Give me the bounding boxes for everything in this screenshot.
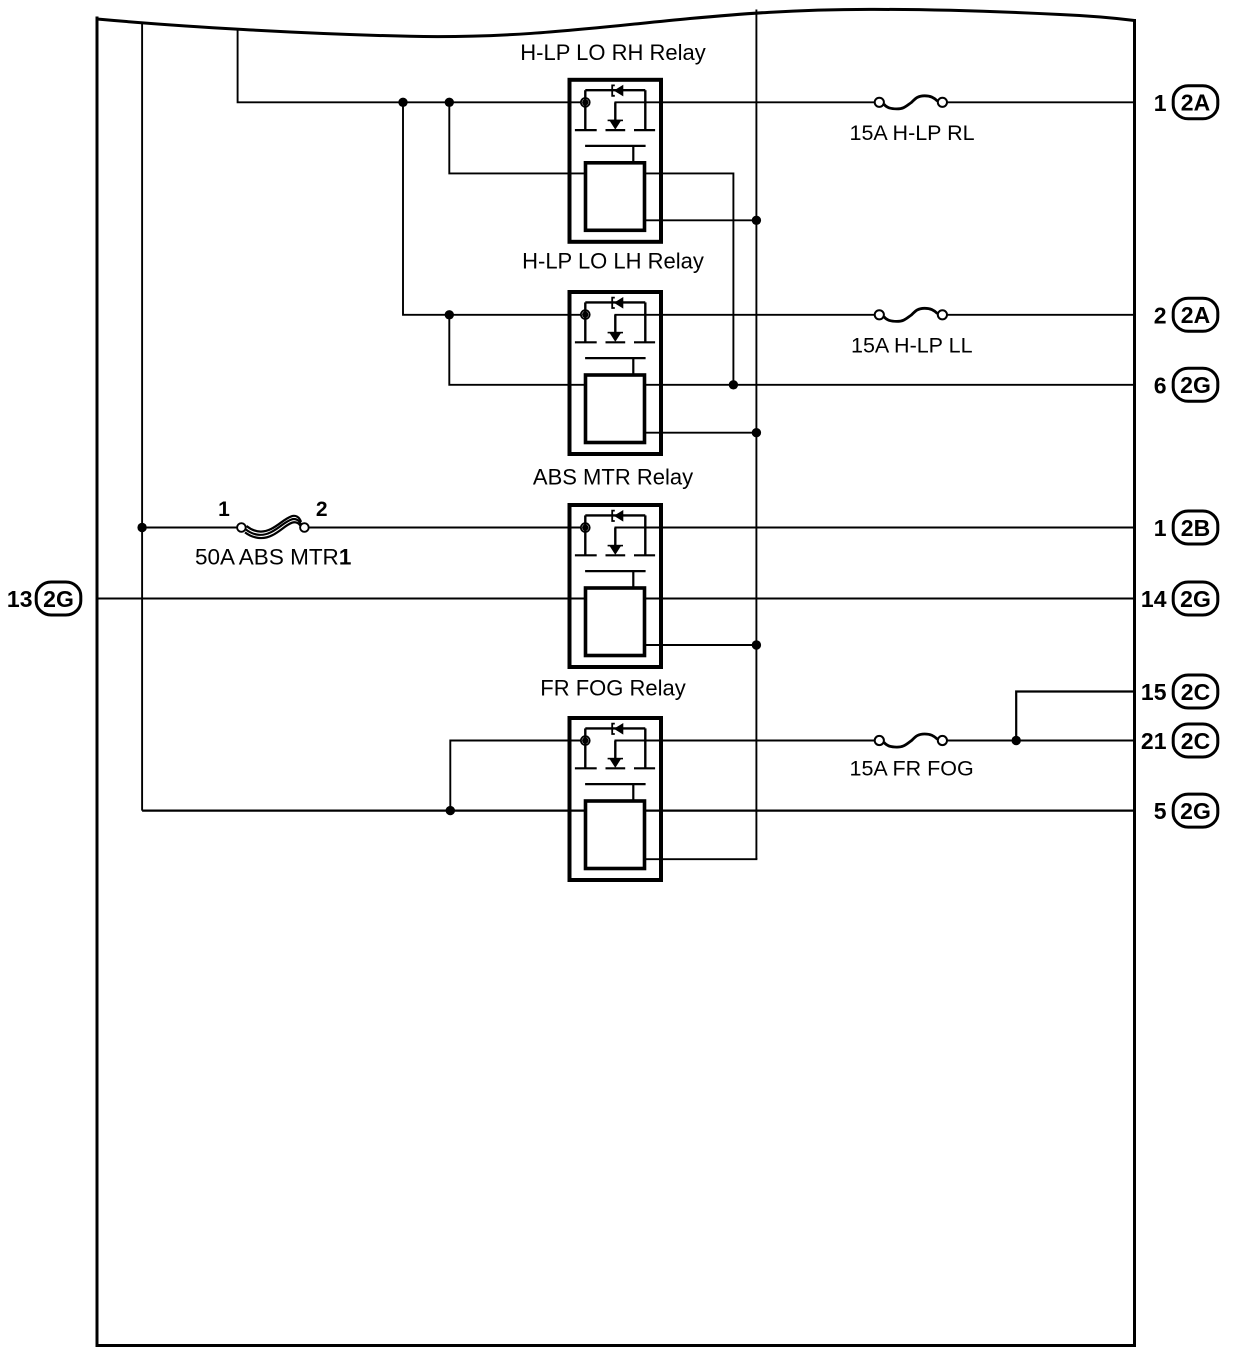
diode D-H-LP LO RH anode triangle [615,86,623,96]
node down-link joins 6-2G wire [729,380,738,389]
wire relay3 coil to connector 14-2G [645,598,1135,600]
svg-text:21: 21 [1141,728,1167,754]
diode D-H-LP LO LH cathode bar [612,298,615,308]
relay H-LP LO LH coil box [586,375,645,443]
relay H-LP LO LH gate arrow [608,332,623,334]
svg-text:H-LP LO RH Relay: H-LP LO RH Relay [520,40,705,65]
relay H-LP LO RH gate lead [614,102,616,120]
wire relay4 output to fuse FR FOG [615,740,875,742]
wire relay1 coil ground to rail [645,219,757,221]
svg-text:1: 1 [218,498,230,521]
wire fuse H-LP RL to connector 1-2A [947,101,1134,103]
harness frame bottom border [96,1344,1137,1347]
svg-text:15A H-LP LL: 15A H-LP LL [851,334,973,358]
relay FR FOG gate lead [614,741,616,759]
wire relay3 coil ground to rail [645,644,757,646]
wire relay4 coil ground corner to rail [645,858,757,859]
wire fuse FR FOG to connector 21-2C [947,740,1134,742]
svg-text:2A: 2A [1181,302,1210,328]
relay ABS MTR coil drive right leg [644,515,646,555]
harness frame wavy top edge [97,9,1135,36]
fuse 15A H-LP RL [884,96,938,109]
wire relay2 coil supply / 6-2G branch [449,315,585,385]
relay H-LP LO LH outer case [570,292,662,454]
svg-text:2G: 2G [43,586,74,612]
node junction feed/relay1 [398,98,407,107]
wire fuse H-LP LL to connector 2-2A [947,314,1134,316]
svg-text:13: 13 [7,586,33,612]
node junction relay2 coil feed [445,310,454,319]
diode D-ABS MTR cathode bar [612,511,615,521]
relay H-LP LO LH [570,292,662,454]
relay H-LP LO RH input pin node [581,98,590,107]
svg-text:2B: 2B [1181,515,1210,541]
relay H-LP LO RH coil box [586,163,645,231]
svg-text:5: 5 [1154,798,1167,824]
wire bus to fusible link 50A [142,527,237,529]
relay H-LP LO RH gate arrow [608,119,623,121]
svg-text:15A FR FOG: 15A FR FOG [850,757,974,781]
svg-text:2A: 2A [1181,90,1210,116]
relay H-LP LO LH input pin node [581,310,590,319]
svg-text:2C: 2C [1181,679,1210,705]
node relay4 input tap [446,806,455,815]
svg-text:2C: 2C [1181,728,1210,754]
relay H-LP LO RH armature line [585,145,646,147]
relay ABS MTR coil drive left leg [584,515,586,555]
harness frame left border [96,17,99,1346]
relay ABS MTR armature line [585,570,646,572]
relay ABS MTR input pin node [581,523,590,532]
svg-text:2G: 2G [1180,798,1211,824]
relay H-LP LO RH coil drive left leg [584,90,586,130]
diode D-ABS MTR anode triangle [615,511,623,521]
fuse 15A FR FOG [884,734,938,747]
wire bus corner into 5-2G line [142,809,585,811]
node bus to ABS MTR1 link [137,523,146,532]
relay ABS MTR contact bars [575,554,655,556]
relay H-LP LO LH coil drive top line [585,301,645,303]
wire relay3 output to connector 1-2B [615,527,1135,529]
relay H-LP LO RH coil drive top line [585,89,645,91]
relay FR FOG coil box [586,801,645,869]
svg-text:50A ABS MTR1: 50A ABS MTR1 [195,544,351,569]
svg-text:2G: 2G [1180,586,1211,612]
svg-text:H-LP LO LH Relay: H-LP LO LH Relay [522,249,704,274]
power feed vertical bus (left inner) [141,23,143,811]
svg-text:1: 1 [1154,90,1167,116]
svg-text:2G: 2G [1180,372,1211,398]
wire fusible link to relay3 input [309,527,582,529]
svg-text:ABS MTR Relay: ABS MTR Relay [533,464,693,489]
relay ABS MTR coil box [586,588,645,656]
diode D-H-LP LO RH cathode bar [612,85,615,95]
wire relay1 output to fuse H-LP RL [615,101,875,103]
wire relay2 coil out to connector 6-2G [645,384,1135,386]
svg-text:15A H-LP RL: 15A H-LP RL [850,121,975,145]
wire 13-2G through relay3 coil [97,598,586,600]
relay H-LP LO LH gate lead [614,315,616,333]
relay FR FOG coil drive top line [585,727,645,729]
wire relay4 coil to connector 5-2G [645,809,1135,811]
battery feed drop to H-LP relays [238,30,582,102]
svg-text:14: 14 [1141,586,1167,612]
relay H-LP LO LH armature link [632,358,634,375]
relay FR FOG [570,718,662,880]
fusible link 50A ABS MTR1 [237,516,309,538]
relay H-LP LO LH armature line [585,357,646,359]
wire relay1 coil out to down-link [645,173,734,384]
relay FR FOG input pin node [581,736,590,745]
relay FR FOG gate arrow [608,758,623,760]
node junction relay1 coil feed [445,98,454,107]
node relay1 ground on rail [752,216,761,225]
svg-text:15: 15 [1141,679,1167,705]
node relay2 ground on rail [752,428,761,437]
relay ABS MTR coil drive top line [585,514,645,516]
wire branch to connector 15-2C [1016,692,1134,741]
relay H-LP LO RH armature link [632,146,634,163]
relay H-LP LO LH coil drive right leg [644,302,646,342]
relay FR FOG armature link [632,784,634,801]
harness frame right border [1133,19,1136,1346]
svg-text:1: 1 [1154,515,1167,541]
relay H-LP LO RH [570,80,662,242]
fuse 15A H-LP LL [884,308,938,321]
wire relay2 output to fuse H-LP LL [615,314,875,316]
relay FR FOG contact bars [575,767,655,769]
relay ABS MTR armature link [632,571,634,588]
relay ABS MTR outer case [570,505,662,667]
wire relay2 coil ground to rail [645,432,757,434]
relay H-LP LO LH contact bars [575,341,655,343]
diode D-FR FOG cathode bar [612,724,615,734]
ground rail vertical (right) [755,10,757,860]
diode D-FR FOG anode triangle [615,724,623,734]
relay ABS MTR gate arrow [608,545,623,547]
relay FR FOG coil drive left leg [584,728,586,768]
svg-text:FR FOG Relay: FR FOG Relay [540,676,685,701]
relay H-LP LO RH outer case [570,80,662,242]
svg-text:2: 2 [1154,302,1167,328]
relay ABS MTR [570,505,662,667]
wire feed drop to relay2 input [403,102,582,314]
relay FR FOG armature line [585,783,646,785]
diode D-H-LP LO LH anode triangle [615,298,623,308]
relay H-LP LO RH coil drive right leg [644,90,646,130]
node branch to 15-2C [1012,736,1021,745]
svg-text:6: 6 [1154,372,1167,398]
relay H-LP LO LH coil drive left leg [584,302,586,342]
relay ABS MTR gate lead [614,528,616,546]
wire relay1 coil supply [449,102,585,173]
wire relay4 input riser [450,741,581,811]
svg-text:2: 2 [316,498,328,521]
node relay3 ground on rail [752,640,761,649]
relay FR FOG outer case [570,718,662,880]
relay H-LP LO RH contact bars [575,129,655,131]
relay FR FOG coil drive right leg [644,728,646,768]
